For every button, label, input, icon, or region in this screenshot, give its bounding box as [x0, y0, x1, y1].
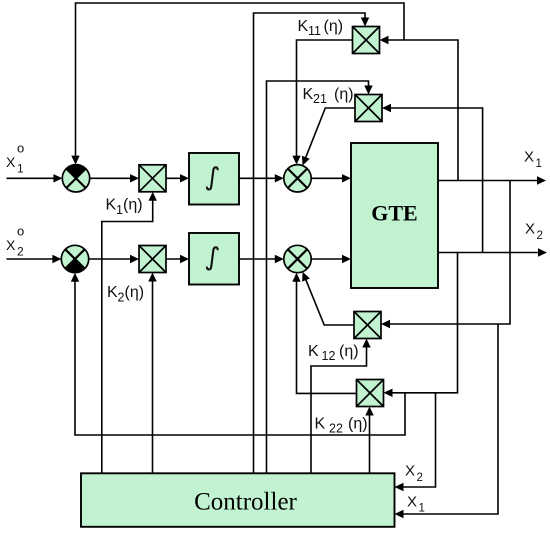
wire X1 feedback up to K11	[380, 36, 459, 181]
svg-text:Controller: Controller	[194, 489, 297, 516]
svg-text:(η): (η)	[334, 86, 354, 103]
svg-text:22: 22	[329, 422, 343, 436]
label K11(eta)	[298, 18, 344, 38]
label K2(eta)	[107, 284, 144, 305]
svg-text:2: 2	[417, 472, 423, 484]
wire S2 to K2	[89, 255, 139, 263]
svg-text:X: X	[407, 494, 417, 511]
wire GTE to X2 output	[438, 248, 547, 256]
wire K11 to M1 top	[292, 40, 352, 165]
svg-text:o: o	[17, 224, 24, 239]
multiplier K2	[139, 246, 166, 273]
multiplier K11	[353, 27, 380, 54]
svg-text:X: X	[6, 154, 16, 170]
svg-text:X: X	[405, 463, 415, 480]
svg-text:X: X	[525, 221, 535, 238]
wire X1 feedback into S1 top	[71, 3, 404, 165]
label X2 controller input	[405, 463, 423, 485]
label X1 output	[524, 149, 542, 171]
wire K1 to integrator I1	[166, 174, 189, 182]
multiplier K21	[355, 95, 382, 122]
svg-text:1: 1	[419, 503, 425, 515]
multiplier node M1	[284, 165, 311, 192]
svg-text:X: X	[6, 237, 16, 253]
svg-text:(η): (η)	[348, 416, 368, 433]
svg-text:12: 12	[322, 349, 336, 363]
wire controller to K22 bottom	[365, 407, 373, 475]
svg-text:1: 1	[17, 162, 24, 176]
block Controller	[81, 473, 395, 527]
svg-text:2: 2	[118, 291, 125, 305]
wire I1 to M1	[239, 174, 284, 182]
svg-text:K: K	[107, 284, 118, 301]
wire X1 down to K12 right	[381, 181, 510, 329]
wire M1 to GTE	[311, 174, 351, 182]
wire X2 feedback into S2 bottom	[71, 273, 405, 435]
svg-text:(η): (η)	[339, 343, 359, 360]
wire controller to K21 top	[267, 81, 373, 474]
svg-text:1: 1	[536, 158, 542, 170]
multiplier node M2	[284, 245, 311, 272]
wire X2 down to K22 right	[384, 253, 458, 398]
integrator I1	[189, 153, 239, 205]
multiplier K12	[354, 312, 381, 339]
summer S1	[62, 165, 89, 192]
wire K22 to M2 bottom	[292, 273, 356, 394]
svg-text:X: X	[524, 149, 534, 166]
svg-text:K: K	[298, 18, 309, 35]
svg-text:2: 2	[537, 230, 543, 242]
wire controller to K1 bottom	[102, 192, 157, 474]
wire M2 to GTE	[311, 255, 351, 263]
multiplier K1	[139, 165, 166, 192]
svg-text:(η): (η)	[324, 18, 344, 35]
integrator I2	[189, 233, 239, 285]
wire K12 to M2 diagonal	[302, 272, 354, 325]
label X1 controller input	[407, 494, 425, 515]
label X2o	[6, 224, 24, 259]
wire controller to K11 top	[254, 13, 370, 474]
wire X1o input	[7, 174, 63, 182]
label K22(eta)	[315, 416, 368, 436]
label K21(eta)	[303, 86, 354, 106]
svg-text:K: K	[303, 86, 314, 103]
wire K21 to M1 diagonal	[302, 108, 355, 166]
svg-text:o: o	[17, 141, 24, 156]
wire I2 to M2	[239, 255, 284, 263]
svg-text:K: K	[106, 197, 117, 214]
svg-text:(η): (η)	[123, 197, 143, 214]
label X1o	[6, 141, 24, 176]
wire K2 to integrator I2	[166, 255, 189, 263]
svg-text:1: 1	[116, 203, 123, 217]
label K12(eta)	[308, 343, 359, 363]
svg-text:K: K	[308, 343, 319, 360]
wire controller to K12 bottom	[311, 339, 371, 475]
wire controller to K2 bottom	[148, 273, 156, 475]
wire X2 up to K21 right	[382, 104, 483, 253]
wire X2 down to controller input	[395, 393, 436, 491]
wire X1 down to controller input	[395, 324, 499, 518]
wire GTE to X1 output	[438, 176, 546, 184]
label X2 output	[525, 221, 543, 243]
summer S2	[61, 245, 88, 272]
multiplier K22	[357, 380, 384, 407]
wire X2o input	[7, 255, 62, 263]
svg-text:GTE: GTE	[371, 201, 417, 226]
svg-text:11: 11	[308, 24, 321, 38]
svg-text:2: 2	[17, 245, 24, 259]
svg-text:(η): (η)	[125, 284, 145, 301]
wire S1 to K1	[90, 174, 139, 182]
svg-text:21: 21	[313, 92, 327, 106]
label K1(eta)	[106, 197, 143, 218]
block GTE	[351, 143, 438, 288]
svg-text:K: K	[315, 416, 326, 433]
